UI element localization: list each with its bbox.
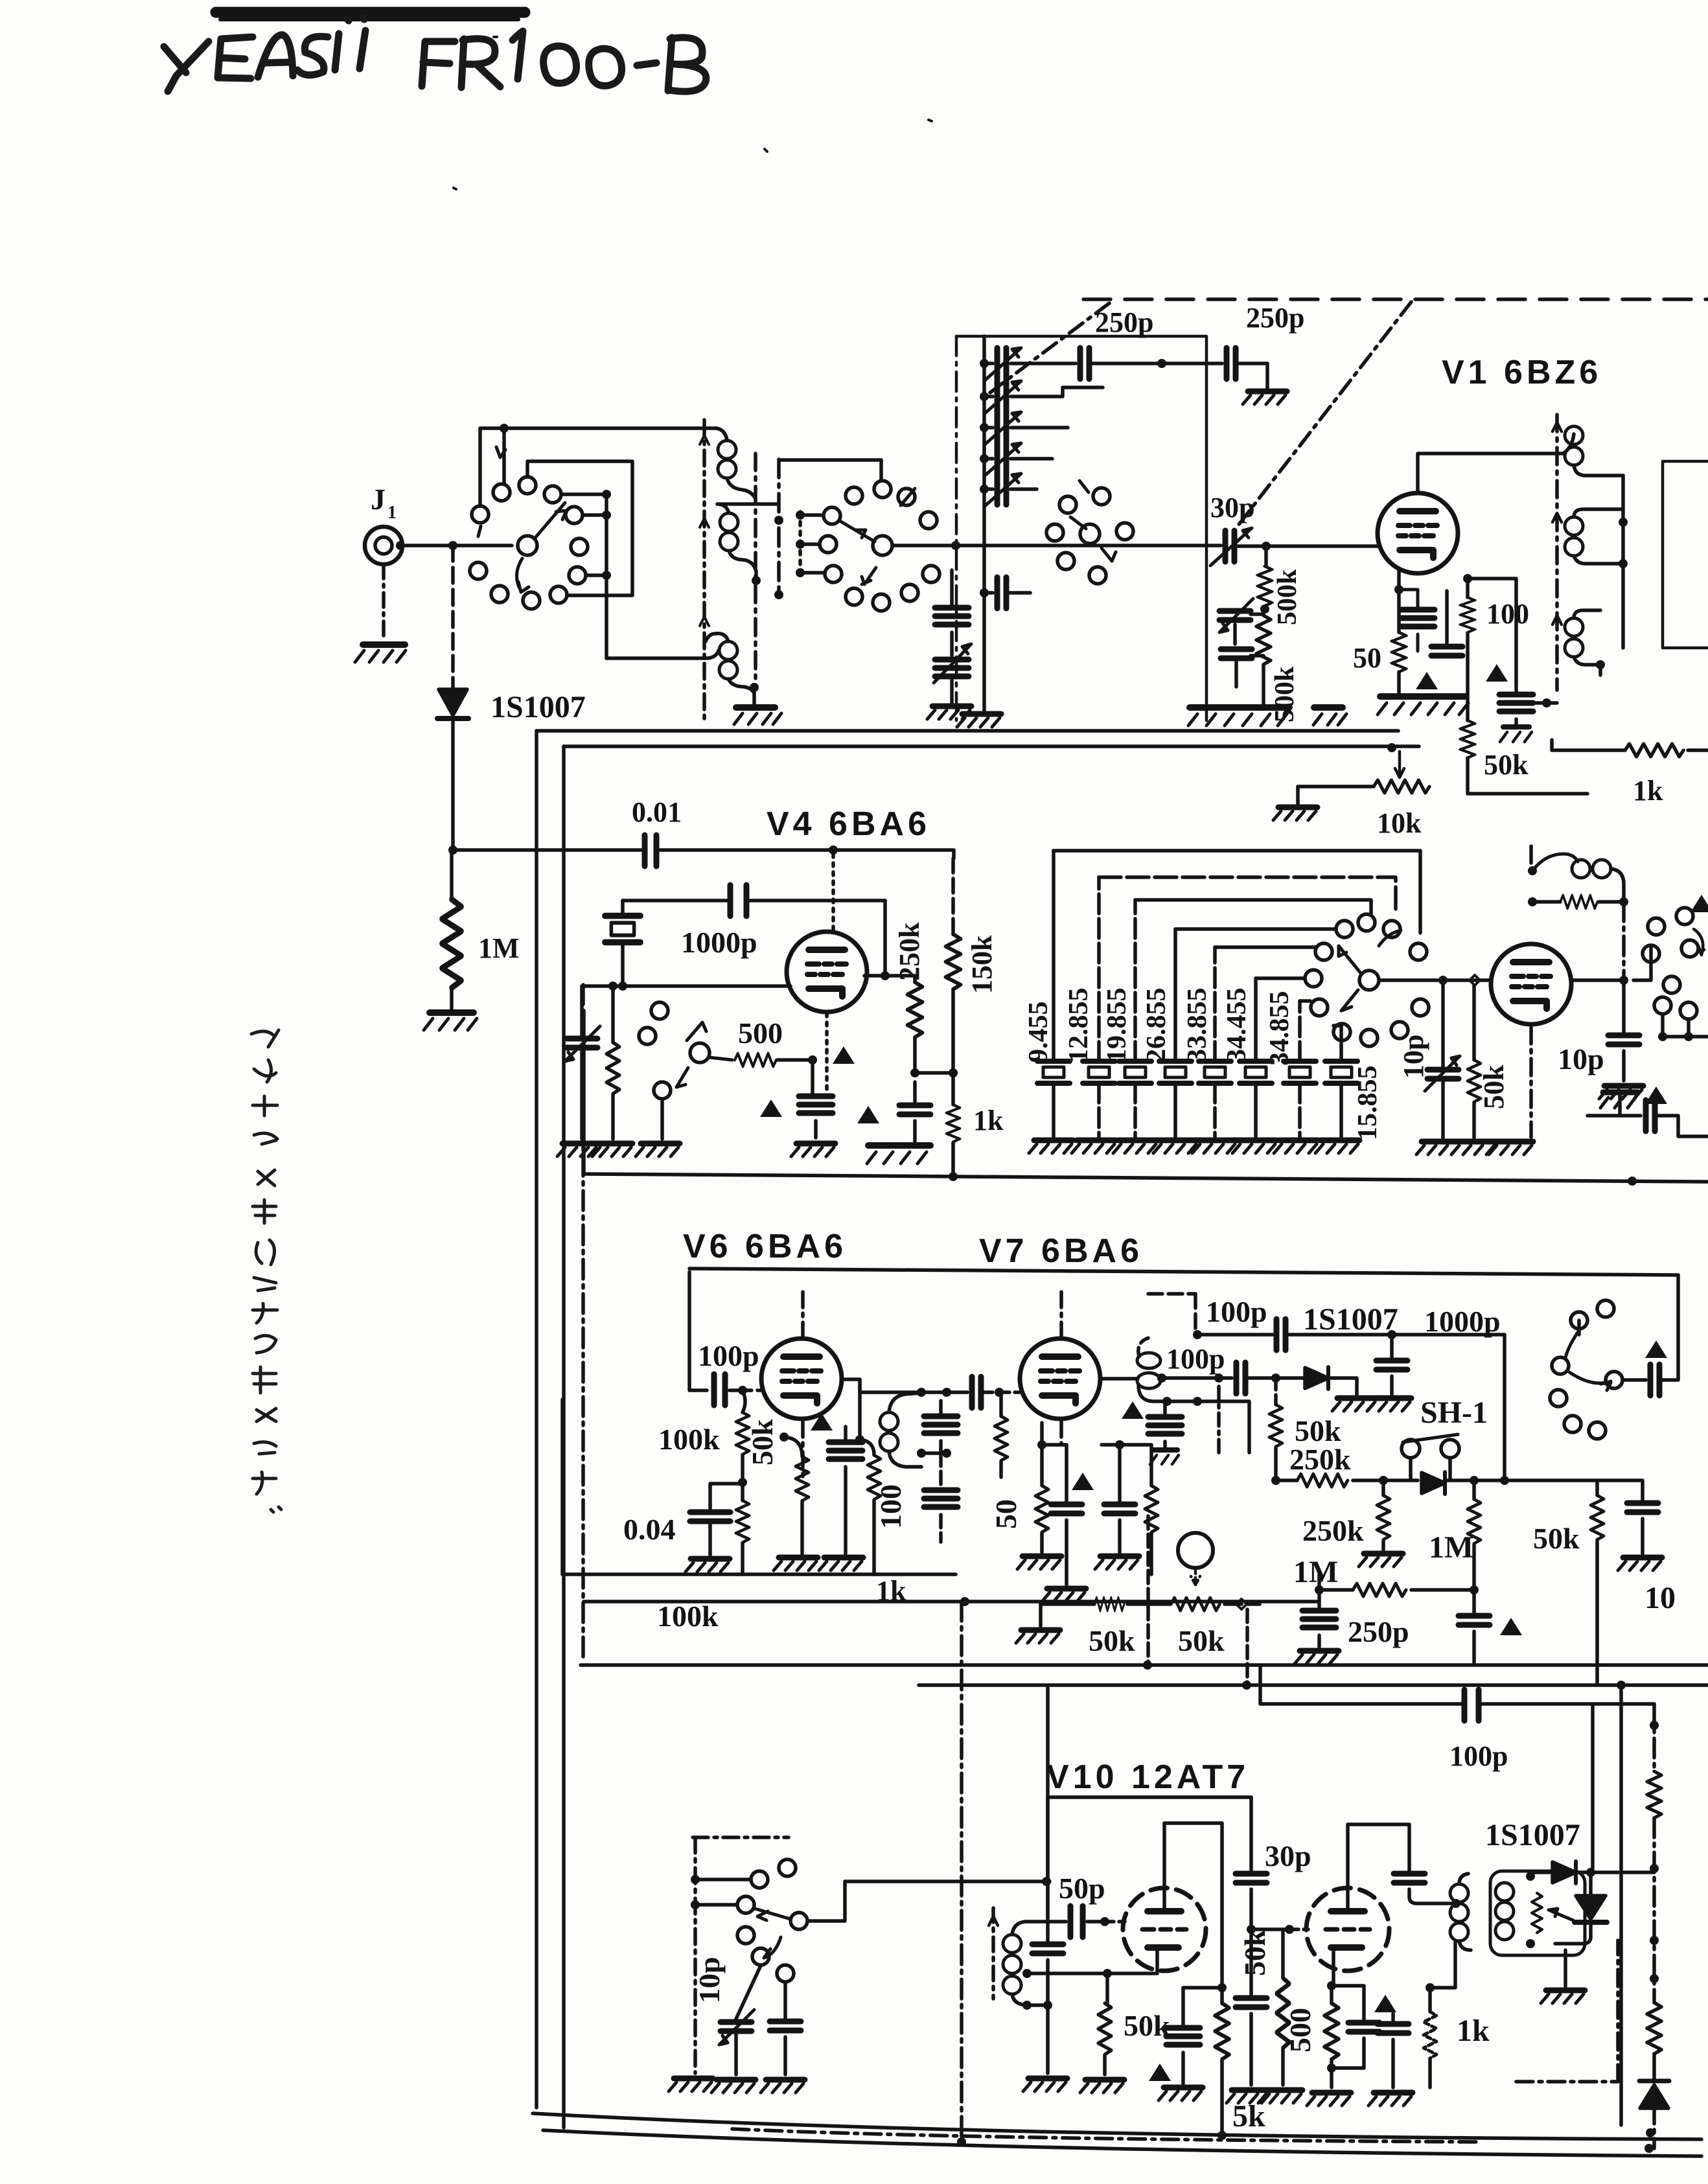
capacitor C1g — [980, 588, 989, 597]
ground bars under gang — [1190, 704, 1289, 711]
coil L1a — [718, 441, 736, 459]
crystal Y6 34.455 — [1222, 978, 1272, 1137]
wires BFO — [1633, 947, 1651, 980]
IF out transformer T4 — [1490, 1871, 1585, 1955]
V1 plate to T2 — [1418, 434, 1574, 491]
switch S1b contacts — [846, 487, 862, 504]
svg-text:1k: 1k — [1457, 2014, 1490, 2048]
svg-text:V6 6BA6: V6 6BA6 — [683, 1228, 847, 1265]
variable capacitor C1c — [980, 423, 989, 432]
crystal X1 — [605, 916, 641, 943]
capacitor 100p V6 grid — [714, 1374, 725, 1405]
resistor 1k heater — [1552, 740, 1625, 750]
V7 cathode — [1037, 1440, 1046, 1449]
switch S1a contacts — [472, 506, 489, 523]
svg-text:50k: 50k — [1533, 1522, 1580, 1555]
V10 plate box — [1048, 1797, 1251, 1922]
V10a plate loop — [1164, 1823, 1222, 1988]
resistor 250k series — [1276, 1478, 1297, 1482]
svg-text:50p: 50p — [1059, 1872, 1105, 1905]
potentiometer 10k — [1374, 780, 1429, 793]
V7 plate to IFT3 — [1102, 1377, 1138, 1381]
ground under J1 — [363, 641, 405, 648]
ground BFO — [1618, 1095, 1622, 1116]
S1b feed rail dotted — [798, 512, 802, 577]
title top bar — [216, 7, 525, 18]
capacitor BFO out — [1587, 1114, 1641, 1118]
tube V1 6BZ6 — [1378, 493, 1458, 573]
svg-text:1S1007: 1S1007 — [1303, 1302, 1398, 1337]
resistor 1M — [450, 850, 454, 899]
T2 primary coil — [1565, 426, 1583, 444]
arrowhead B+ 3 — [857, 1106, 879, 1123]
second rail vertical — [562, 746, 566, 2128]
dotted screen feed — [831, 854, 835, 932]
tube V5 mixer — [1491, 944, 1571, 1024]
capacitor 250p avc — [1302, 1611, 1336, 1627]
resistor 1M avc series — [1315, 1585, 1324, 1594]
BFO switch contacts — [1648, 918, 1665, 935]
resistor 100 — [1460, 597, 1475, 632]
capacitor C1f fixed — [1080, 348, 1089, 379]
svg-text:SH-1: SH-1 — [1420, 1396, 1488, 1430]
IF transformer T2 core — [1555, 415, 1559, 690]
svg-text:100p: 100p — [698, 1339, 759, 1372]
arrowhead near BFO — [1691, 895, 1708, 912]
capacitor pad fixed — [1221, 649, 1252, 658]
variable capacitor C1e — [980, 485, 989, 494]
svg-text:250p: 250p — [1246, 302, 1304, 334]
capacitor cal bypass — [811, 1060, 814, 1094]
wire AGC loop bottom — [562, 1572, 956, 1576]
rotary switch S1b rail — [777, 459, 781, 595]
svg-text:1000p: 1000p — [1424, 1305, 1501, 1338]
svg-text:250k: 250k — [1302, 1514, 1364, 1547]
arrowhead B+ IFT3 — [1122, 1401, 1144, 1419]
svg-text:100: 100 — [874, 1484, 907, 1529]
wire S1b output — [892, 544, 1221, 547]
AVC rail dash-dot vertical — [581, 985, 585, 1659]
right rail resistors — [1652, 1704, 1656, 1771]
feedthrough cap IFT3 — [1148, 1417, 1182, 1434]
wire switch1 feed — [453, 544, 512, 547]
svg-text:50: 50 — [1353, 642, 1381, 674]
svg-text:30p: 30p — [1210, 492, 1254, 523]
ground near 10k — [1273, 807, 1317, 820]
function switch contacts — [1571, 1312, 1587, 1329]
svg-text:10p: 10p — [693, 1957, 726, 2003]
svg-text:100k: 100k — [658, 1423, 720, 1456]
bus lower row1 — [581, 1663, 1708, 1667]
dash-dot osc box — [1516, 1940, 1618, 2082]
grounds osc — [1416, 1142, 1460, 1155]
wire detector top — [1197, 1333, 1273, 1337]
stray scan specks — [454, 37, 932, 189]
wire diode to AGC line — [451, 718, 455, 850]
capacitor cathode bypass — [1401, 610, 1435, 626]
wire xtal osc out — [1379, 978, 1491, 982]
diode 1S1007 (antenna) — [439, 689, 467, 715]
V6 grid loop — [689, 1272, 707, 1390]
svg-text:V10 12AT7: V10 12AT7 — [1046, 1758, 1249, 1796]
resistor 250k plate — [913, 976, 917, 982]
svg-text:0.04: 0.04 — [623, 1513, 676, 1546]
resistor 1k relay — [1425, 1983, 1435, 1992]
T2 bracket — [1663, 461, 1708, 648]
wire J1 to node — [402, 544, 453, 547]
svg-text:50k: 50k — [1484, 749, 1529, 781]
grounds V4 row — [557, 1144, 601, 1156]
arrowhead B+ — [833, 1046, 855, 1064]
svg-text:250k: 250k — [1289, 1443, 1351, 1476]
bus stub to 100p — [1260, 1665, 1654, 1704]
capacitor af — [1597, 1480, 1643, 1500]
T2 secondary coil — [1565, 517, 1583, 535]
tube V6 6BA6 — [761, 1339, 842, 1419]
svg-text:V1 6BZ6: V1 6BZ6 — [1442, 354, 1602, 391]
crystal Y8 15.855 — [1325, 1026, 1383, 1140]
svg-text:1M: 1M — [478, 932, 520, 964]
trimmer cap cal — [580, 986, 584, 1035]
feedthrough capacitor — [1499, 695, 1533, 711]
ground pot — [1039, 1604, 1043, 1626]
capacitor screen V4 — [899, 1105, 930, 1114]
coil L1b — [720, 513, 738, 531]
capacitor screen — [1431, 647, 1462, 656]
svg-text:34.455: 34.455 — [1222, 988, 1252, 1063]
grounds V6 — [774, 1558, 818, 1570]
capacitor osc fixed — [783, 1983, 787, 2019]
potentiometer 50k meter adj — [1171, 1598, 1219, 1611]
wire det out corner — [1503, 1335, 1506, 1480]
gang rail — [982, 336, 986, 596]
bottom page border line2 — [543, 2130, 1702, 2156]
capacitor screen v10b — [1374, 1995, 1396, 2012]
series cap to V7 — [972, 1377, 981, 1408]
svg-text:V7 6BA6: V7 6BA6 — [979, 1232, 1143, 1270]
V10b plate loop — [1348, 1824, 1409, 1910]
connector J1 — [365, 527, 402, 564]
capacitor bfo coupling — [1623, 1378, 1646, 1382]
capacitor V7 cathode — [1042, 1445, 1067, 1502]
IFT2 coil — [880, 1412, 898, 1431]
tube V10a triode — [1123, 1888, 1206, 1971]
wire V4 grid — [582, 984, 791, 988]
wire contact rail down — [606, 494, 719, 658]
right vertical rail b — [1591, 1705, 1595, 1868]
tube V4 6BA6 — [787, 932, 867, 1012]
svg-text:100k: 100k — [657, 1600, 719, 1633]
wire detector diode row — [1162, 1376, 1232, 1380]
svg-text:250p: 250p — [1095, 306, 1153, 338]
resistor 250k shunt — [1381, 1480, 1385, 1495]
capacitor pad variable — [1219, 599, 1253, 632]
V6 plate to IFT2 — [842, 1379, 967, 1392]
svg-text:10p: 10p — [1398, 1035, 1429, 1079]
secondary return rail — [754, 454, 757, 687]
crystal Y1 9.455 — [1024, 851, 1070, 1137]
wire IFT3 lower — [1138, 1385, 1249, 1453]
svg-text:100p: 100p — [1449, 1740, 1508, 1772]
svg-text:1k: 1k — [1633, 775, 1663, 807]
svg-text:10: 10 — [1645, 1581, 1676, 1615]
capacitor 100p coupling bottom — [1464, 1690, 1479, 1721]
resistor V7 grid — [999, 1392, 1003, 1416]
resistor 50k AVC — [1466, 667, 1470, 720]
bottom dash-dot overlay — [732, 2129, 1477, 2142]
handwritten title YEASU FR100-B — [164, 18, 706, 91]
svg-text:V4 6BA6: V4 6BA6 — [767, 805, 930, 843]
pot in T4 — [1532, 1893, 1542, 1933]
left rail vertical — [535, 731, 538, 2108]
svg-text:34.855: 34.855 — [1265, 991, 1295, 1066]
resistor 50k osc coil — [1105, 1973, 1109, 2003]
left vertical japanese note strip — [251, 1030, 281, 1512]
capacitor 50p — [1048, 1920, 1066, 1924]
switch osc xtal sel — [693, 1835, 789, 1839]
svg-text:100p: 100p — [1206, 1295, 1267, 1328]
svg-text:1: 1 — [387, 503, 397, 523]
crystal Y4 26.855 — [1142, 929, 1192, 1137]
resistor 50k osc — [1472, 985, 1476, 1060]
svg-text:100: 100 — [1486, 598, 1529, 630]
resistor 1M agc — [1472, 1480, 1476, 1499]
ground T4 — [1564, 1950, 1567, 1986]
svg-text:33.855: 33.855 — [1183, 988, 1212, 1063]
capacitor cathode v6 — [829, 1442, 862, 1459]
grounds under crystals — [1029, 1140, 1073, 1153]
arrowhead B+ v6 — [811, 1413, 833, 1431]
resistor 500 cathode — [1332, 1949, 1335, 1986]
resistor 50 — [1392, 632, 1406, 672]
switch cal contacts — [651, 1002, 668, 1019]
svg-text:26.855: 26.855 — [1142, 988, 1171, 1063]
crystal Y5 33.855 — [1183, 947, 1231, 1137]
capacitor 100p agc — [1276, 1319, 1286, 1350]
svg-text:250k: 250k — [894, 922, 925, 981]
svg-text:150k: 150k — [966, 935, 998, 994]
wire relay node — [1430, 1942, 1455, 1988]
resistor 50k v10b grid — [1281, 1929, 1285, 1978]
right vertical rail a — [1619, 1685, 1623, 2125]
svg-text:1M: 1M — [1293, 1555, 1338, 1589]
variable capacitor C1b — [980, 392, 989, 401]
trimmer 10p — [1441, 980, 1445, 1066]
antenna coil T1 core — [702, 420, 706, 720]
arrowhead B+ 2 — [760, 1099, 782, 1117]
wire S1a contact3 loop — [527, 461, 632, 595]
svg-text:500k: 500k — [1273, 569, 1302, 625]
resistor 5k — [1215, 2003, 1229, 2059]
diode squelch — [1422, 1472, 1445, 1494]
trimmer cap 30 — [1210, 528, 1252, 566]
T2 right rail — [1621, 476, 1625, 648]
svg-text:1k: 1k — [973, 1105, 1004, 1136]
switch xtal rotor — [1359, 971, 1379, 990]
diode shunt down — [1576, 1896, 1606, 1919]
svg-text:50k: 50k — [1478, 1064, 1510, 1109]
resistor 100k grid — [743, 1390, 745, 1412]
svg-text:1000p: 1000p — [681, 926, 757, 959]
dashed mechanical gang border — [1083, 297, 1708, 301]
cathode tap wire — [1027, 1950, 1157, 1973]
resistor 100k lower — [736, 1500, 749, 1543]
ground bank bypass — [927, 706, 971, 719]
crystal Y7 34.855 — [1265, 991, 1316, 1138]
trimmer switch S1c contacts — [1059, 496, 1076, 513]
bus lower row2 — [919, 1683, 1708, 1687]
T2 tertiary coil — [1565, 618, 1583, 636]
tube V7 6BA6 — [1020, 1339, 1100, 1419]
svg-text:50: 50 — [989, 1499, 1022, 1529]
variable capacitor C1a — [980, 359, 989, 368]
resistor screen 100 — [858, 1379, 862, 1440]
svg-text:1M: 1M — [1429, 1530, 1473, 1565]
rotary switch S1a rotor — [518, 536, 537, 555]
resistor 500k lower — [1256, 615, 1271, 665]
capacitor 10p mixer — [1622, 980, 1626, 1033]
wire 1000p feedback — [623, 899, 885, 902]
svg-text:1S1007: 1S1007 — [1485, 1818, 1580, 1852]
IF B+ rail — [689, 1269, 1678, 1275]
grounds det — [1332, 1398, 1376, 1411]
tube V10b triode — [1306, 1888, 1389, 1971]
pot rails — [1146, 1516, 1150, 1662]
osc feed vertical — [1046, 1685, 1050, 1918]
arrowhead B+ v7 — [1072, 1473, 1094, 1490]
svg-text:500: 500 — [738, 1017, 783, 1050]
hatched chassis bar — [1380, 693, 1466, 700]
capacitor 30p — [1236, 1874, 1267, 1883]
capacitor 1000p — [1390, 1335, 1394, 1358]
V7 screen network — [1115, 1440, 1124, 1449]
wire 1000p to plate — [883, 901, 887, 976]
node A junction — [448, 541, 457, 550]
capacitor 0.01 — [645, 835, 656, 866]
switch S1b rotor — [873, 536, 892, 555]
wire main AGC horizontal — [453, 848, 645, 852]
bottom page border line1 — [533, 2113, 1702, 2139]
wire S1a contact leads right — [561, 494, 606, 575]
svg-text:50k: 50k — [746, 1419, 779, 1466]
wire screen feed — [1468, 579, 1516, 682]
resistor 50k af — [1591, 1495, 1604, 1539]
svg-text:50k: 50k — [1124, 2009, 1170, 2042]
B+ bus mid — [584, 1174, 1708, 1182]
ground under T1 — [736, 704, 775, 711]
resistor osc plate — [1532, 900, 1560, 904]
resistor 500 — [735, 1053, 776, 1066]
variable capacitor C1d — [980, 454, 989, 463]
svg-text:10k: 10k — [1377, 807, 1422, 839]
ground under 250p — [1243, 391, 1287, 404]
osc plate coil — [1528, 866, 1537, 875]
capacitor 100p det — [1236, 1362, 1245, 1394]
IFT2 cap bottom — [924, 1490, 958, 1507]
wire S1a top loop — [480, 428, 717, 506]
feedthrough cap v10b — [1394, 1874, 1425, 1883]
ground gang rail — [982, 593, 986, 711]
tuning gang box — [956, 336, 1206, 720]
svg-text:30p: 30p — [1265, 1839, 1311, 1872]
svg-text:50k: 50k — [1238, 1929, 1271, 1976]
ground under 1M — [430, 1009, 474, 1016]
svg-text:12.855: 12.855 — [1064, 988, 1094, 1063]
wire V4 plate — [864, 974, 915, 978]
coil L1c — [719, 641, 737, 660]
bus dots mid — [1628, 1177, 1637, 1186]
svg-text:100p: 100p — [1166, 1343, 1225, 1375]
svg-text:J: J — [371, 483, 386, 516]
switch xtal select contacts — [1336, 921, 1353, 937]
svg-text:15.855: 15.855 — [1353, 1066, 1383, 1141]
svg-text:500: 500 — [1284, 2008, 1317, 2052]
crystal bus staircase — [1054, 851, 1420, 933]
capacitor 500 bypass — [1332, 1986, 1364, 2020]
IFT2 cap top — [924, 1416, 958, 1433]
potentiometer 50k rf gain — [1041, 1602, 1094, 1606]
svg-text:9.455: 9.455 — [1024, 1002, 1054, 1063]
resistor grid leak — [611, 986, 615, 1042]
resistor 50k cathode — [779, 1432, 789, 1442]
diode 1S1007 det — [1305, 1367, 1328, 1389]
V1 cathode leads — [1399, 569, 1447, 693]
IFT3 coil — [1137, 1353, 1160, 1368]
crystal Y3 19.855 — [1102, 900, 1151, 1137]
svg-text:10p: 10p — [1558, 1042, 1604, 1075]
wire J1 ground lead — [382, 564, 386, 640]
wire AVC line — [584, 1600, 1319, 1604]
arrowhead B+ small — [1416, 672, 1438, 689]
capacitor 0.04 — [710, 1484, 743, 1510]
capacitor 1000p — [730, 885, 746, 916]
capacitor 250p to ground — [1227, 348, 1236, 379]
switch S1a wiper arm — [535, 503, 566, 538]
svg-text:1S1007: 1S1007 — [490, 690, 586, 724]
crystal Y2 12.855 — [1064, 877, 1115, 1137]
svg-text:50k: 50k — [1089, 1624, 1135, 1657]
svg-text:0.01: 0.01 — [632, 796, 682, 828]
meter M — [1178, 1533, 1213, 1568]
capacitor v10 interstage lower — [1249, 1929, 1253, 1995]
capacitor bank bypass upper — [950, 570, 954, 605]
resistor 150k — [952, 850, 956, 858]
capacitor osc grid — [1046, 1922, 1050, 1942]
osc input coil — [991, 1908, 995, 1999]
svg-text:19.855: 19.855 — [1102, 988, 1132, 1063]
IF output rail dash-dot — [960, 1602, 964, 2141]
svg-text:50k: 50k — [1178, 1624, 1225, 1657]
resistor 50k det — [1274, 1378, 1278, 1405]
long bus upper pair — [537, 729, 1398, 733]
capacitor bank bypass lower variable — [950, 632, 954, 656]
diode 1S1007 out — [1530, 1870, 1550, 1874]
capacitor agc line — [1472, 1590, 1476, 1613]
svg-text:250p: 250p — [1348, 1615, 1409, 1648]
wire node to diode — [451, 546, 455, 688]
capacitor plate bypass — [1183, 1988, 1222, 2025]
resistor 1k cathode — [951, 1073, 955, 1105]
resistor 500k upper — [1264, 546, 1268, 566]
svg-text:1k: 1k — [876, 1575, 906, 1607]
